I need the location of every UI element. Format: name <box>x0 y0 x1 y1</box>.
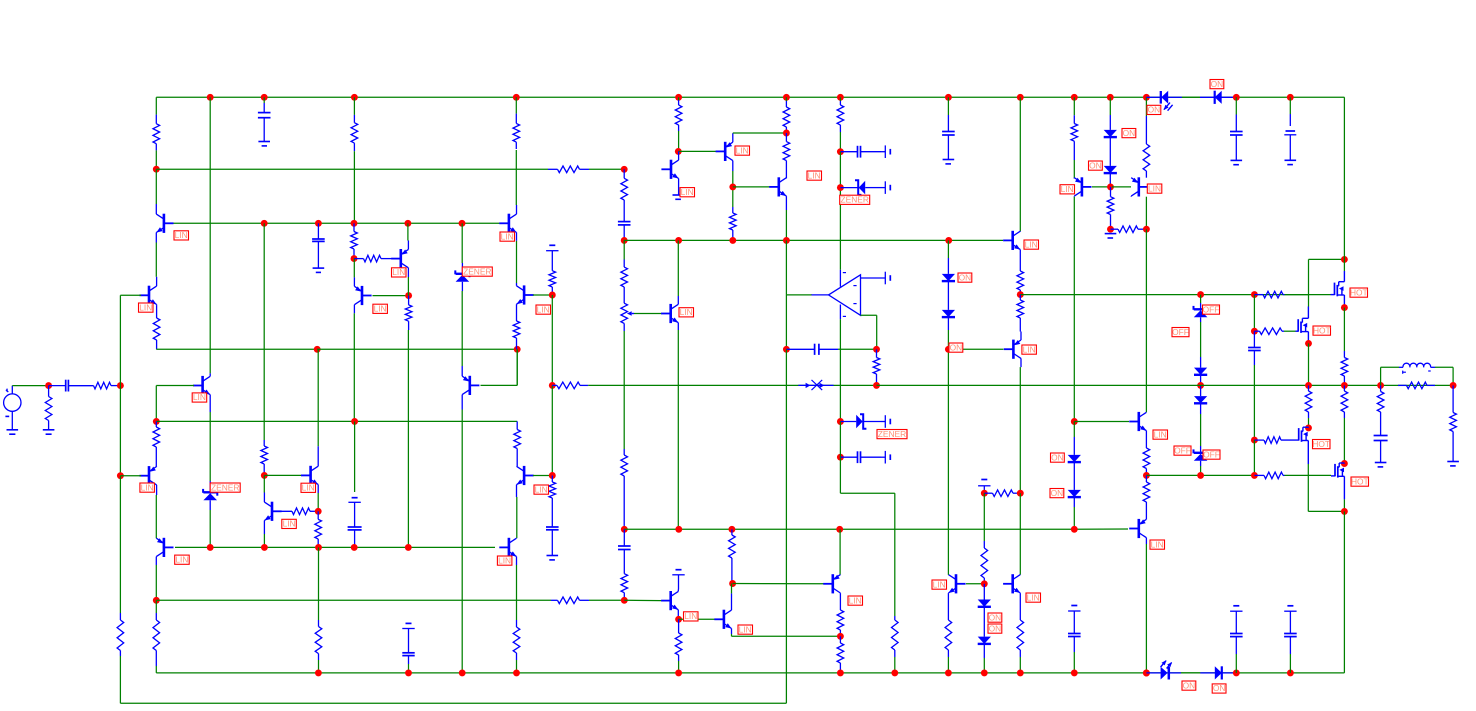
wire W_rail703 <box>120 702 786 704</box>
svg-text:ON: ON <box>1148 105 1161 115</box>
wire W_948pre0 <box>947 97 949 115</box>
zener Z_840a <box>840 180 881 195</box>
svg-text:LIN: LIN <box>739 624 752 634</box>
node N_462_223 <box>459 220 466 227</box>
wire W_786b <box>785 240 787 295</box>
wire W_318d <box>318 660 320 673</box>
wire W_fb1 <box>119 295 121 385</box>
resistor R_1308 <box>1305 385 1312 418</box>
wire W_516b <box>516 241 518 283</box>
resistor R_678top <box>675 100 682 131</box>
battery B_1290t <box>1284 114 1296 160</box>
label LB24 <box>1153 429 1168 439</box>
wire W_408pre <box>407 277 409 296</box>
wire W_318a <box>317 349 319 446</box>
resistor R_264 <box>261 440 268 475</box>
node N_840_529 <box>836 526 843 533</box>
node N_1074_529 <box>1071 526 1078 533</box>
node N_624_240 <box>621 237 628 244</box>
diode D_1110b <box>1104 152 1117 187</box>
transistor QT2 <box>1131 177 1148 196</box>
wire W_1200b <box>1200 322 1202 357</box>
node N_840_97 <box>837 94 844 101</box>
wire W_1254c <box>1253 365 1255 440</box>
node N_1290_97 <box>1287 94 1294 101</box>
wire W_354a <box>353 259 355 278</box>
wire W_1146a <box>1145 197 1147 230</box>
wire W_oainp_top <box>839 188 841 270</box>
led D_top1 <box>1146 91 1182 111</box>
wire W_156pre1 <box>155 150 157 169</box>
node N_948_97 <box>945 94 952 101</box>
node N_in <box>45 382 52 389</box>
node N_264_475 <box>261 472 268 479</box>
transistor Q18 <box>948 574 965 593</box>
resistor R_qv2c <box>514 421 521 466</box>
ground G11 <box>1447 462 1459 466</box>
wire W_354pre1 <box>353 151 355 223</box>
led D_bot1 <box>1146 660 1181 679</box>
svg-text:LIN: LIN <box>1148 183 1161 193</box>
node N_732_529 <box>728 526 735 533</box>
svg-text:LIN: LIN <box>1061 184 1074 194</box>
wire W_fbcap <box>838 348 877 350</box>
wire W_264b <box>263 475 265 492</box>
mosfet M3 <box>1282 427 1309 464</box>
label LB22 <box>1060 184 1075 194</box>
node N_516_97 <box>513 94 520 101</box>
node N_264_97 <box>261 94 268 101</box>
wire W_1254b <box>1253 440 1255 475</box>
wire W_qv2base <box>533 475 552 477</box>
node N_1146_672 <box>1143 669 1150 676</box>
wire W_1290pre <box>1289 97 1291 114</box>
svg-text:LIN: LIN <box>175 230 188 240</box>
svg-text:HOT: HOT <box>1313 325 1331 335</box>
svg-text:ZENER: ZENER <box>211 482 239 492</box>
wire W_qt1base <box>1092 186 1111 188</box>
node N_1146_229 <box>1143 226 1150 233</box>
svg-text:LIN: LIN <box>535 484 548 494</box>
wire W_840b <box>839 457 841 493</box>
svg-text:ON: ON <box>1089 160 1102 170</box>
resistor R_840d2 <box>837 636 844 673</box>
capacitor C_354 <box>348 521 362 548</box>
wire W_ind3 <box>1435 366 1453 368</box>
resistor R_g2 <box>1254 328 1284 335</box>
node N_318_349 <box>314 346 321 353</box>
node N_462_672 <box>459 669 466 676</box>
wire W_1236b <box>1235 654 1237 673</box>
node N_786_240 <box>783 237 790 244</box>
node N_408_547 <box>405 544 412 551</box>
wire W_q5base <box>120 475 141 477</box>
node N_1254_440 <box>1251 437 1258 444</box>
svg-text:LIN: LIN <box>302 483 315 493</box>
wire W_1344dn <box>1343 511 1345 673</box>
svg-text:HOT: HOT <box>1312 439 1330 449</box>
svg-text:LIN: LIN <box>849 595 862 605</box>
resistor R_156_dn <box>153 613 160 666</box>
wire W_552b <box>551 385 553 475</box>
resistor POT_624 <box>621 295 628 331</box>
resistor R_516dn <box>513 620 520 660</box>
wire W_1020b <box>1019 367 1021 493</box>
label LB_zener3 <box>840 195 870 205</box>
wire W_462a <box>461 223 463 263</box>
wire W_qt2base <box>1112 186 1131 188</box>
wire W_rail294 <box>1020 294 1308 296</box>
transistor Q17 <box>823 574 840 593</box>
wire W_1344b <box>1343 418 1345 464</box>
resistor R_1146 <box>1143 116 1150 178</box>
wire W_qv3base <box>481 384 518 386</box>
wire W_732a <box>733 132 787 134</box>
mosfet M2 <box>1296 307 1309 344</box>
node N_210_97 <box>207 94 214 101</box>
label LB16 <box>807 170 822 180</box>
wire W_g1 <box>1285 294 1331 296</box>
resistor R_1344b <box>1341 385 1348 418</box>
wire W_210a <box>209 97 211 373</box>
node N_1074_421 <box>1071 418 1078 425</box>
battery B_840d <box>881 451 890 464</box>
wire W_1074pre <box>1073 97 1075 115</box>
label LB_on_b1 <box>1182 680 1196 690</box>
battery B_1074 <box>1068 606 1080 633</box>
wire W_840a <box>839 422 841 458</box>
capacitor C_fb <box>786 344 838 355</box>
node N_984_672 <box>981 669 988 676</box>
node N_1290_672 <box>1287 669 1294 676</box>
ground G10 <box>1285 160 1297 164</box>
wire W_rail547 <box>175 546 495 548</box>
battery B_840c <box>881 415 890 428</box>
svg-text:OFF: OFF <box>1203 449 1220 459</box>
node N_354_421 <box>351 418 358 425</box>
wire W_624pre <box>623 240 625 259</box>
wire W_1344top <box>1343 97 1345 259</box>
label LB15 <box>735 145 750 155</box>
node N_408_672 <box>405 669 412 676</box>
label LB8 <box>392 267 407 277</box>
node N_354_97 <box>351 94 358 101</box>
label LB13 <box>679 307 694 317</box>
wire W_408a <box>407 223 409 240</box>
node N_840_421 <box>837 418 844 425</box>
wire W_q737base <box>678 150 716 152</box>
label LB_zener4 <box>877 429 907 439</box>
resistor R_1344a <box>1341 351 1348 385</box>
capacitor C_840b <box>840 451 881 463</box>
svg-text:LIN: LIN <box>681 187 694 197</box>
diode D_948b <box>942 297 955 330</box>
label LB_on_948a <box>958 272 972 282</box>
wire W_1308c <box>1308 418 1310 428</box>
node N_948_672 <box>945 669 952 676</box>
wire W_210b <box>209 412 211 481</box>
transistor Q21 <box>1003 574 1020 593</box>
label LB1 <box>174 230 189 240</box>
wire W_1110a <box>1109 97 1111 115</box>
wire W_840pre0 <box>839 97 841 101</box>
battery B_oa <box>861 272 891 285</box>
wire W_948pre <box>947 240 949 258</box>
wire W_q15base <box>733 186 770 188</box>
label LB18 <box>932 579 947 589</box>
node N_678_529 <box>675 526 682 533</box>
label LB5 <box>175 554 190 564</box>
wire W_g2 <box>1284 330 1296 332</box>
resistor R_1020a <box>1017 250 1024 295</box>
wire W_dbot <box>1181 672 1200 674</box>
battery B_984 <box>978 480 990 494</box>
label LB_on_984a <box>988 612 1002 622</box>
svg-text:ON: ON <box>1213 683 1226 693</box>
battery B_354 <box>348 498 360 521</box>
svg-text:ON: ON <box>959 272 972 282</box>
label LB_on_d3 <box>1122 128 1136 138</box>
svg-text:LIN: LIN <box>537 304 550 314</box>
node N_552_295 <box>549 292 556 299</box>
capacitor C_840 <box>840 146 881 158</box>
capacitor C_948 <box>942 115 955 160</box>
diode D_984b <box>978 623 991 659</box>
wire W_264a <box>263 223 265 440</box>
wire W_516e <box>516 660 518 673</box>
wire W_517b <box>516 349 518 385</box>
capacitor C_408 <box>402 652 414 664</box>
label LB_zener2 <box>462 266 492 276</box>
resistor R_354top <box>351 115 358 151</box>
node N_678_151 <box>675 148 682 155</box>
ground G4 <box>313 268 325 272</box>
wire W_732c <box>731 584 733 594</box>
wire W_rail385r <box>877 384 1454 386</box>
svg-text:ON: ON <box>989 623 1002 633</box>
node N_624_529 <box>621 526 628 533</box>
resistor R_552a <box>549 263 556 295</box>
node N_1020_493 <box>1017 490 1024 497</box>
resistor R_q8 <box>274 508 319 515</box>
svg-text:OFF: OFF <box>1172 327 1189 337</box>
svg-text:ON: ON <box>1211 79 1224 89</box>
ground G7 <box>943 160 955 164</box>
node N_786_133 <box>783 130 790 137</box>
ground G2 <box>43 430 55 434</box>
diode D_top2 <box>1200 91 1236 104</box>
wire W_1344a <box>1343 308 1345 351</box>
crossed-diode element X1 <box>798 380 833 390</box>
wire W_rail421 <box>156 420 517 422</box>
svg-text:LIN: LIN <box>684 611 697 621</box>
label LB_on_d2 <box>1210 79 1224 89</box>
node N_318_547 <box>315 544 322 551</box>
ground G9 <box>1231 160 1243 164</box>
transistor Q19 <box>1003 231 1020 250</box>
label LB_zener1 <box>210 482 240 492</box>
node N_1254_475 <box>1251 472 1258 479</box>
label LB_on_d4 <box>1089 160 1103 170</box>
node N_1236_97 <box>1233 94 1240 101</box>
label LB_on_b2 <box>1212 683 1226 693</box>
label LB_off4 <box>1203 449 1220 459</box>
node N_1453_385 <box>1450 382 1457 389</box>
label LB_off2 <box>1172 327 1189 337</box>
wire W_1020c <box>1019 493 1021 575</box>
transistor Q3 <box>193 373 210 412</box>
wire W_732b <box>732 171 734 207</box>
node N_1020_97 <box>1017 94 1024 101</box>
svg-text:ON: ON <box>1051 452 1064 462</box>
node N_1146_97 <box>1143 94 1150 101</box>
node N_1236_672 <box>1233 669 1240 676</box>
wire W_rail672 <box>156 672 1344 674</box>
node N_156_169 <box>153 166 160 173</box>
node N_516_672 <box>513 669 520 676</box>
wire W_948b <box>947 330 949 349</box>
resistor R_876 <box>873 349 880 385</box>
svg-text:LIN: LIN <box>1023 344 1036 354</box>
wire W_1200a <box>1200 295 1202 303</box>
resistor R_fb_dn <box>117 613 124 656</box>
resistor R_qv1e <box>513 318 520 349</box>
wire W_354c <box>353 313 355 421</box>
wire W_fb2b <box>119 476 121 613</box>
resistor R_984 <box>981 541 988 584</box>
label LB_off3 <box>1174 445 1191 455</box>
wire W_rail600b <box>589 599 624 601</box>
wire W_ind2 <box>1381 366 1399 368</box>
wire W_rail349a <box>156 348 317 350</box>
svg-text:LIN: LIN <box>139 302 152 312</box>
label LB_on_948b <box>949 342 963 352</box>
node N_1254_294 <box>1251 291 1258 298</box>
node N_1380_385 <box>1377 382 1384 389</box>
wire W_210c <box>209 510 211 547</box>
svg-text:ZENER: ZENER <box>878 429 906 439</box>
wire W_rail169a <box>156 168 548 170</box>
node N_678_240 <box>675 237 682 244</box>
wire W_1074a <box>1073 160 1075 179</box>
wire W_rail169b <box>589 168 624 170</box>
capacitor C_624b <box>618 529 631 563</box>
diode D_984a <box>978 584 991 623</box>
wire W_q3base <box>156 385 194 387</box>
zener Z_left <box>203 481 217 510</box>
resistor R_840d1 <box>837 593 844 636</box>
wire W_m1drain <box>1343 259 1345 271</box>
wire W_948c <box>947 657 949 673</box>
resistor R_678dn <box>675 619 682 661</box>
node N_732_187 <box>729 183 736 190</box>
label LB3 <box>192 392 207 402</box>
wire W_156pre <box>155 600 157 613</box>
svg-text:ZENER: ZENER <box>463 266 491 276</box>
capacitor C_318 <box>312 223 325 268</box>
node N_1074_97 <box>1071 94 1078 101</box>
wire W_1146pre <box>1145 97 1147 116</box>
wire W_g4 <box>1285 474 1332 476</box>
resistor R_1110 <box>1107 187 1114 229</box>
wire W_qmbase <box>373 295 409 297</box>
label LB4 <box>140 482 155 492</box>
resistor R_in <box>68 382 120 389</box>
svg-text:HOT: HOT <box>1350 287 1368 297</box>
transistor Q16 <box>769 177 786 210</box>
node N_517_349 <box>514 346 521 353</box>
wire W_rail529 <box>624 528 1074 530</box>
node N_408_223 <box>404 220 411 227</box>
node N_876_349 <box>873 346 880 353</box>
wire W_156c <box>155 386 157 422</box>
svg-text:LIN: LIN <box>501 231 514 241</box>
wire W_1308a <box>1308 343 1310 385</box>
node N_624_600 <box>621 597 628 604</box>
label LB17 <box>848 595 863 605</box>
svg-text:LIN: LIN <box>808 170 821 180</box>
wire W_led1 <box>1182 96 1200 98</box>
resistor R_load <box>1450 385 1457 461</box>
transistor QV3 <box>462 366 479 410</box>
capacitor C_in <box>49 380 93 392</box>
wire W_rail240 <box>624 239 1003 241</box>
wire W_156d <box>155 495 157 538</box>
transistor Q12 <box>661 296 678 330</box>
resistor R_1020b <box>1017 295 1024 332</box>
resistor R_948dn <box>945 593 952 657</box>
ground G1 <box>7 430 19 434</box>
wire W_corner294 <box>1308 259 1310 294</box>
wire W_1200c <box>1200 414 1202 446</box>
wire W_q14base <box>679 618 716 620</box>
resistor R_rail600 <box>551 597 589 604</box>
node N_552_475 <box>549 472 556 479</box>
svg-text:LIN: LIN <box>392 267 405 277</box>
transistor Q2 <box>139 277 156 306</box>
wire W_rail475 <box>1146 474 1254 476</box>
wire W_156b <box>155 243 157 277</box>
transistor QB1 <box>1129 412 1146 431</box>
wire W_786c <box>785 295 787 349</box>
node N_984_493 <box>981 490 988 497</box>
wire W_732d <box>731 634 733 636</box>
label LB23 <box>1147 183 1162 193</box>
wire W_948a <box>947 349 949 574</box>
resistor R_in_gnd <box>45 386 52 430</box>
resistor R_1110h <box>1111 226 1147 233</box>
node N_786_349 <box>783 346 790 353</box>
svg-text:LIN: LIN <box>193 392 206 402</box>
wire W_rail223 <box>174 222 463 224</box>
node N_1308_385 <box>1305 382 1312 389</box>
node N_1074_672 <box>1071 669 1078 676</box>
wire W_678c <box>678 661 680 673</box>
svg-text:HOT: HOT <box>1351 476 1369 486</box>
node N_318_511 <box>315 508 322 515</box>
node N_1254_331 <box>1251 328 1258 335</box>
svg-text:ON: ON <box>989 612 1002 622</box>
resistor R_c1 <box>153 115 160 151</box>
label LB27 <box>738 624 753 634</box>
wire W_rail600a <box>156 599 551 601</box>
node N_1200_294 <box>1197 291 1204 298</box>
node N_1020_294 <box>1017 291 1024 298</box>
wire W_786pre0 <box>785 97 787 101</box>
node N_1110_97 <box>1107 94 1114 101</box>
resistor R_g1 <box>1254 291 1284 298</box>
node N_552_385 <box>549 382 556 389</box>
